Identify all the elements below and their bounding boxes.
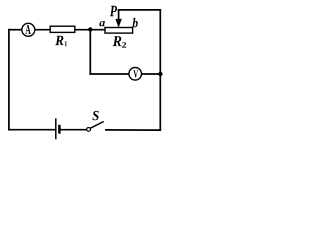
rheostat R2 xyxy=(105,28,133,34)
wire switch to bottom right xyxy=(106,129,160,131)
voltmeter V xyxy=(129,68,142,81)
resistor R1 xyxy=(50,26,75,32)
wire R1 to rheostat R2 through node a xyxy=(75,29,105,31)
wire voltmeter to right junction xyxy=(141,73,160,75)
wire top from slider P to right xyxy=(119,9,161,11)
label P xyxy=(110,6,117,16)
label R1 xyxy=(55,36,67,46)
wire ammeter to resistor R1 xyxy=(35,29,51,31)
node label b xyxy=(133,18,138,28)
label R2 xyxy=(113,36,127,47)
wire left vertical xyxy=(8,30,10,130)
slider P arrow xyxy=(115,10,121,28)
ammeter A xyxy=(22,23,35,36)
node label a xyxy=(99,21,104,26)
wire right vertical xyxy=(159,10,161,130)
wire top-left corner to ammeter xyxy=(9,29,22,31)
label S xyxy=(92,111,98,120)
wire voltmeter branch horizontal xyxy=(90,73,129,75)
wire bottom left to battery xyxy=(9,129,55,131)
junction dot node a xyxy=(88,27,92,31)
switch S xyxy=(87,122,104,132)
wire battery to switch xyxy=(60,129,87,131)
battery cell xyxy=(56,118,60,139)
wire node a down to voltmeter branch xyxy=(89,30,91,74)
junction dot right xyxy=(158,72,162,76)
